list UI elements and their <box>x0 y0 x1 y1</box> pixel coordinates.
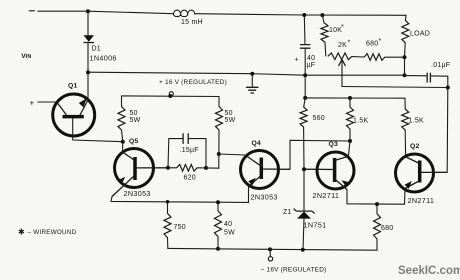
node: 40uF bottom rail junction <box>303 73 307 77</box>
node: Q3 collector junction <box>348 139 352 143</box>
diode D1 <box>87 11 89 35</box>
svg-text:1N4006: 1N4006 <box>90 54 117 63</box>
svg-text:.01µF: .01µF <box>431 62 450 69</box>
resistor 620 <box>177 165 198 172</box>
terminal: +16V output circle <box>169 92 173 96</box>
resistor R 50 5W left <box>118 107 125 130</box>
svg-text:– WIREWOUND: – WIREWOUND <box>28 229 77 236</box>
svg-text:Q4: Q4 <box>252 140 262 147</box>
resistor 750 <box>164 213 171 237</box>
svg-text:Q1: Q1 <box>68 83 78 90</box>
svg-text:✱: ✱ <box>18 228 25 237</box>
node: 750 top <box>166 200 170 204</box>
wire: Q3 emitter down <box>347 190 405 205</box>
wire: Q1 emitter up to D1 node <box>87 72 89 99</box>
svg-text:Z1: Z1 <box>283 209 292 216</box>
wire: plus to Q1 <box>38 101 57 103</box>
capacitor .01uF <box>405 76 448 88</box>
capacitor .15uF branch <box>168 139 206 168</box>
node: wiper/.01uF junction <box>446 86 450 90</box>
svg-text:− 16V (REGULATED): − 16V (REGULATED) <box>261 267 327 274</box>
wire: 50/5W right bottom <box>218 130 220 168</box>
svg-text:VIN: VIN <box>21 53 31 60</box>
wire: 620 node to Q4 <box>206 167 219 169</box>
node: zener bottom <box>301 248 305 252</box>
svg-text:40: 40 <box>224 221 232 228</box>
node: Q5 base junction <box>166 166 170 170</box>
transistor Q1 <box>53 94 95 136</box>
svg-text:+: + <box>30 99 35 108</box>
resistor 40 5W <box>215 211 222 237</box>
svg-text:680: 680 <box>381 225 393 232</box>
transistor Q2 <box>396 154 434 192</box>
resistor 680 <box>374 214 381 239</box>
capacitor 40uF <box>303 15 306 44</box>
ground <box>251 74 253 87</box>
wire: top rail right <box>195 14 406 16</box>
node: 680 top <box>375 202 379 206</box>
svg-text:5W: 5W <box>225 117 236 124</box>
inductor L1 15mH <box>174 10 195 14</box>
svg-text:50: 50 <box>225 110 233 117</box>
node: 40/5W bottom <box>216 247 220 251</box>
node: D1 bottom junction <box>86 70 90 74</box>
svg-text:SeekIC.com: SeekIC.com <box>398 265 460 277</box>
node: rail right end <box>403 73 407 77</box>
svg-text:*: * <box>341 24 344 31</box>
wire: Q4 emitter down <box>248 187 250 203</box>
resistor LOAD <box>402 20 409 43</box>
svg-text:*: * <box>348 40 351 47</box>
node: -16V tap <box>268 247 272 251</box>
svg-text:50: 50 <box>130 110 138 117</box>
node: 40uF top <box>302 13 306 17</box>
node: D1 top junction <box>86 9 90 13</box>
svg-text:D1: D1 <box>92 46 101 53</box>
node: 40/5W top <box>216 200 220 204</box>
resistor 680* <box>364 54 385 61</box>
resistor 1.5K right <box>402 109 409 130</box>
svg-text:1.5K: 1.5K <box>409 118 424 125</box>
node: Q4 collector junction <box>217 152 221 156</box>
svg-text:*: * <box>379 38 382 45</box>
svg-text:40: 40 <box>307 55 315 62</box>
svg-text:680: 680 <box>366 41 378 48</box>
svg-text:5W: 5W <box>130 117 141 124</box>
node: Q5 collector junction <box>121 140 125 144</box>
node: 680*/LOAD junction <box>403 55 407 59</box>
wire: Q4 base to Q3 collector node <box>290 140 350 169</box>
svg-text:1N751: 1N751 <box>304 221 327 230</box>
resistor 10K* <box>321 23 328 42</box>
zener Z1 1N751 <box>303 169 305 211</box>
wire: left +16 distribution <box>122 96 220 107</box>
wire: Q5 emitter to rail <box>111 197 249 203</box>
minus input terminal <box>29 10 34 12</box>
svg-text:2N2711: 2N2711 <box>408 196 435 205</box>
svg-text:620: 620 <box>184 175 196 182</box>
node: 620 right junction <box>204 166 208 170</box>
svg-text:2N2711: 2N2711 <box>313 191 340 200</box>
svg-text:µF: µF <box>307 62 316 69</box>
wire: Q3 collector up <box>348 141 350 156</box>
svg-text:Q2: Q2 <box>410 143 420 150</box>
resistor 560 <box>300 107 307 127</box>
wire: Q2 emitter down <box>404 189 407 205</box>
resistor R 50 5W right <box>216 107 223 130</box>
node: 1.5K middle top <box>348 96 352 100</box>
terminal: -16V circle <box>269 249 271 256</box>
wire: output bus y98 <box>305 98 405 109</box>
svg-text:560: 560 <box>313 115 325 122</box>
wire: Q1 bottom to Q5 collector node <box>73 118 123 142</box>
svg-text:2N3053: 2N3053 <box>124 189 151 198</box>
svg-text:+: + <box>295 57 299 64</box>
node: bus left <box>303 96 307 100</box>
svg-text:LOAD: LOAD <box>410 31 430 38</box>
svg-text:750: 750 <box>174 224 186 231</box>
svg-text:5W: 5W <box>224 230 235 237</box>
svg-text:2K: 2K <box>338 42 347 49</box>
wire: Q4 collector from node <box>219 154 245 155</box>
wire: top rail left <box>38 11 174 14</box>
svg-text:2N3053: 2N3053 <box>251 193 278 202</box>
transistor Q5 <box>115 149 154 188</box>
svg-text:.15µF: .15µF <box>180 147 199 154</box>
node: 10K top <box>320 13 324 17</box>
transistor Q3 <box>317 152 354 189</box>
svg-text:15 mH: 15 mH <box>181 19 203 26</box>
wire: wiper line <box>342 87 448 88</box>
svg-text:+ 16 V (REGULATED): + 16 V (REGULATED) <box>159 79 227 86</box>
wire: Q5 collector <box>122 142 124 153</box>
wire: Q2 base riser <box>446 88 449 173</box>
pot wiper arrow <box>341 62 343 87</box>
svg-text:Q3: Q3 <box>329 141 339 148</box>
resistor 1.5K middle <box>347 107 354 129</box>
node: +16V terminal tap <box>168 94 172 98</box>
node: ground tap <box>250 72 254 76</box>
wire: to rail <box>404 57 406 75</box>
wire: -16V rail <box>168 239 377 250</box>
svg-text:Q5: Q5 <box>129 138 139 145</box>
svg-text:1.5K: 1.5K <box>353 118 368 125</box>
potentiometer 2K* <box>328 53 352 60</box>
wire: +16V rail <box>88 72 405 75</box>
node: Q3 base junction <box>302 167 306 171</box>
transistor Q4 <box>241 151 279 189</box>
